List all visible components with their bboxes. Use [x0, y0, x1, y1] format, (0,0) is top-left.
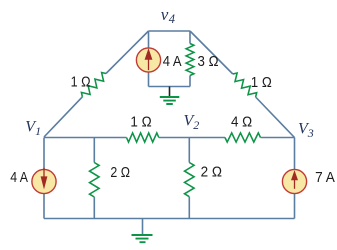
svg-text:2 Ω: 2 Ω [201, 164, 222, 181]
current source 4A (left) circle [32, 169, 56, 193]
svg-text:1 Ω: 1 Ω [251, 74, 272, 91]
wire: left diagonal lower segment (V1 to 1Ω) [44, 97, 82, 137]
wire: main horizontal 4Ω to V3 [261, 137, 295, 139]
ground (top sub-loop) bars [160, 97, 180, 104]
wire: right diagonal upper segment (v4 to 1Ω) [190, 31, 233, 74]
wire: right vertical V3 to bottom [294, 138, 296, 219]
ground (top sub-loop) stub [169, 87, 171, 97]
current source 4A (top) circle [136, 48, 160, 72]
wire: 2Ω right branch top lead [188, 138, 190, 163]
resistor 1Ω (horizontal V1-V2) [127, 133, 159, 142]
wire: bottom horizontal [44, 218, 295, 220]
wire: left vertical V1 to bottom [43, 138, 45, 219]
current source 4A (top) up arrow [145, 48, 153, 70]
wire: top-left vertical (v4 to 4A source to bottom of sub-loop) [148, 31, 150, 87]
current source 7A up arrow [291, 170, 298, 189]
svg-text:1 Ω: 1 Ω [130, 114, 151, 131]
svg-text:2 Ω: 2 Ω [110, 164, 130, 181]
resistor 2Ω (right branch) [185, 163, 195, 197]
current source 7A circle [282, 169, 306, 193]
wire: right diagonal lower segment (1Ω to V3) [256, 97, 295, 138]
svg-text:V2: V2 [184, 113, 200, 133]
svg-text:4 Ω: 4 Ω [231, 114, 252, 131]
wire: 2Ω left branch top lead [93, 138, 95, 163]
wire: top node v4 horizontal [149, 30, 191, 32]
resistor 3Ω (vertical, top sub-loop) [189, 31, 191, 87]
svg-text:V3: V3 [298, 120, 314, 140]
wire: bottom of top sub-loop [149, 86, 191, 88]
svg-text:4 A: 4 A [10, 169, 28, 186]
wire: main horizontal 1Ω to 4Ω (through V2) [159, 137, 225, 139]
wire: left diagonal upper segment (1Ω to v4) [106, 31, 149, 74]
svg-text:1 Ω: 1 Ω [71, 74, 91, 91]
svg-text:7 A: 7 A [315, 169, 335, 186]
svg-text:4 A: 4 A [163, 53, 182, 70]
wire: 2Ω right branch bottom lead [188, 197, 190, 219]
resistor 3Ω zigzag [186, 44, 194, 76]
svg-text:v4: v4 [161, 5, 175, 26]
svg-text:3 Ω: 3 Ω [198, 53, 219, 70]
current source 4A (left) down arrow [41, 168, 48, 190]
wire: 2Ω left branch bottom lead [93, 197, 95, 219]
resistor 1Ω (left diagonal) [81, 73, 106, 97]
resistor 4Ω (horizontal V2-V3) [225, 133, 261, 142]
wire: main horizontal V1 to 1Ω [44, 137, 127, 139]
ground (bottom) bars [132, 235, 153, 242]
resistor 1Ω (right diagonal) [233, 73, 257, 97]
svg-text:V1: V1 [25, 118, 41, 138]
ground (bottom) stub [142, 219, 144, 235]
resistor 2Ω (left branch) [90, 163, 100, 198]
